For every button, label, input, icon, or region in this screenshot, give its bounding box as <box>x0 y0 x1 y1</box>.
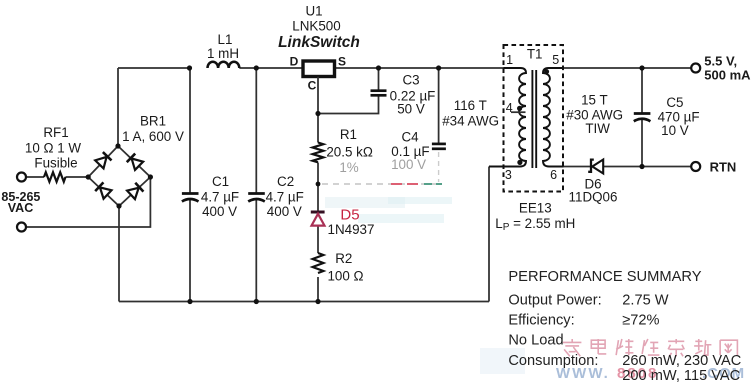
svg-text:L1: L1 <box>218 32 233 47</box>
svg-text:PERFORMANCE SUMMARY: PERFORMANCE SUMMARY <box>508 269 701 285</box>
svg-text:S: S <box>338 55 346 69</box>
svg-text:400 V: 400 V <box>267 204 302 219</box>
svg-text:Consumption:: Consumption: <box>508 353 598 369</box>
svg-text:D: D <box>290 55 299 69</box>
svg-text:D5: D5 <box>340 207 359 224</box>
svg-text:LNK500: LNK500 <box>292 19 340 34</box>
svg-text:C5: C5 <box>666 95 683 110</box>
svg-text:1N4937: 1N4937 <box>328 222 375 237</box>
svg-text:LinkSwitch: LinkSwitch <box>278 34 360 51</box>
svg-text:U1: U1 <box>305 4 322 19</box>
svg-text:260 mW, 230 VAC: 260 mW, 230 VAC <box>622 353 741 369</box>
svg-text:C3: C3 <box>402 73 419 88</box>
svg-text:No Load: No Load <box>508 333 563 349</box>
svg-text:5: 5 <box>552 53 559 67</box>
svg-text:116 T: 116 T <box>454 98 487 113</box>
svg-text:5.5 V,: 5.5 V, <box>704 54 737 69</box>
svg-text:C: C <box>308 79 317 93</box>
svg-text:100 V: 100 V <box>391 157 426 172</box>
svg-text:6: 6 <box>550 168 557 182</box>
svg-text:100 Ω: 100 Ω <box>327 269 363 284</box>
svg-text:15 T: 15 T <box>581 93 608 108</box>
svg-text:1 mH: 1 mH <box>207 46 239 61</box>
svg-text:3: 3 <box>505 168 512 182</box>
svg-text:10 Ω 1 W: 10 Ω 1 W <box>25 141 82 156</box>
svg-text:Output Power:: Output Power: <box>508 293 601 309</box>
svg-text:Fusible: Fusible <box>34 156 77 171</box>
svg-text:1%: 1% <box>339 160 358 175</box>
svg-text:20.5 kΩ: 20.5 kΩ <box>326 145 373 160</box>
svg-text:≥72%: ≥72% <box>622 313 659 329</box>
svg-text:T1: T1 <box>527 46 543 61</box>
svg-text:RTN: RTN <box>710 159 737 174</box>
svg-text:1 A, 600 V: 1 A, 600 V <box>122 129 184 144</box>
svg-text:4.7 µF: 4.7 µF <box>201 190 239 205</box>
svg-text:C2: C2 <box>277 174 294 189</box>
svg-text:C1: C1 <box>212 174 229 189</box>
svg-text:11DQ06: 11DQ06 <box>569 190 618 205</box>
svg-text:4: 4 <box>506 101 513 115</box>
svg-text:#34 AWG: #34 AWG <box>442 113 499 128</box>
svg-text:EE13: EE13 <box>519 201 552 216</box>
svg-text:1: 1 <box>506 53 513 67</box>
svg-text:R1: R1 <box>340 127 357 142</box>
svg-text:BR1: BR1 <box>140 114 166 129</box>
svg-text:RF1: RF1 <box>43 125 68 140</box>
svg-text:2.75 W: 2.75 W <box>622 293 668 309</box>
svg-text:C4: C4 <box>401 130 419 145</box>
svg-text:500 mA: 500 mA <box>704 68 751 83</box>
svg-text:400 V: 400 V <box>202 204 237 219</box>
svg-text:10 V: 10 V <box>661 123 689 138</box>
svg-text:R2: R2 <box>335 251 352 266</box>
svg-text:VAC: VAC <box>8 201 33 215</box>
svg-text:200 mW, 115 VAC: 200 mW, 115 VAC <box>622 368 740 383</box>
svg-text:Efficiency:: Efficiency: <box>508 313 574 329</box>
svg-text:TIW: TIW <box>585 121 610 136</box>
svg-text:4.7 µF: 4.7 µF <box>266 190 304 205</box>
svg-text:50 V: 50 V <box>397 101 425 116</box>
